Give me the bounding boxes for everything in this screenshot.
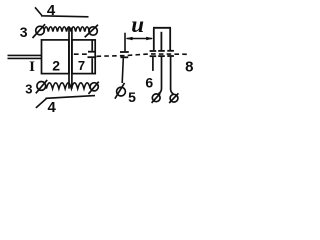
svg-text:5: 5: [128, 89, 136, 105]
svg-text:3: 3: [20, 24, 28, 40]
svg-text:2: 2: [52, 57, 60, 73]
svg-text:3: 3: [25, 81, 32, 96]
svg-text:4: 4: [48, 99, 57, 114]
svg-text:I: I: [29, 59, 35, 75]
svg-text:7: 7: [78, 58, 85, 73]
svg-text:4: 4: [47, 2, 56, 19]
svg-text:8: 8: [185, 58, 193, 75]
svg-text:u: u: [131, 12, 144, 37]
svg-text:6: 6: [145, 74, 153, 90]
